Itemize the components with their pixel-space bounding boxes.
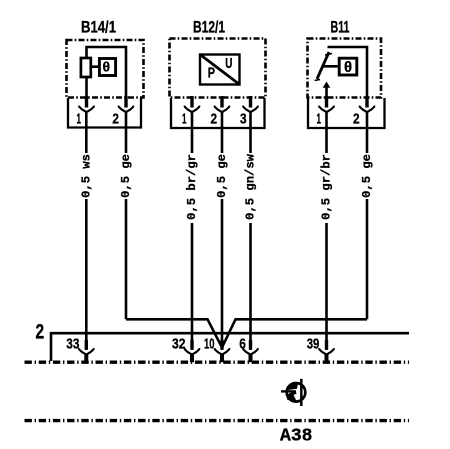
wire internal top loop B11 [328, 47, 368, 96]
tick bottom of diagonal [315, 80, 321, 81]
ge rail right segment [222, 319, 367, 347]
circled connector symbol inside A38 [281, 379, 305, 406]
male pin into socket 32 [190, 340, 193, 350]
label 0,5 ge (B11-2) [360, 153, 374, 199]
connector strip edge [51, 333, 409, 361]
ge rail left segment [126, 319, 222, 347]
svg-text:U: U [225, 55, 232, 72]
svg-text:θ: θ [103, 58, 111, 74]
svg-text:P: P [208, 65, 215, 82]
svg-text:B14/1: B14/1 [81, 19, 116, 37]
connector housing B14/1 [68, 98, 141, 128]
dashed box B14/1 [67, 40, 144, 98]
label 0,5 br/gr [185, 153, 199, 223]
svg-text:0,5 ws: 0,5 ws [79, 154, 93, 198]
svg-text:0,5 ge: 0,5 ge [119, 154, 133, 198]
A38 boundary dash-dot bottom [25, 419, 410, 422]
wire B12/1-3 to socket 6 (gn/sw) [249, 112, 252, 350]
wire B12/1-1 to socket 32 (br/gr) [191, 112, 194, 350]
variable element diagonal B11 [317, 52, 329, 79]
svg-text:A38: A38 [280, 427, 313, 447]
transducer box B12/1 [200, 55, 240, 85]
label 0,5 ge (B14/1-2) [119, 153, 133, 199]
svg-text:1: 1 [77, 111, 82, 128]
wire B12/1-2 to socket 10 (ge) [221, 112, 224, 350]
male pin B12/1-1 [190, 96, 193, 108]
svg-text:θ: θ [344, 59, 352, 76]
male pin B11-1 [325, 96, 328, 108]
socket fork B14/1-1 [79, 106, 94, 112]
socket fork B14/1-2 [119, 106, 134, 112]
male pin B12/1-3 [249, 96, 252, 108]
tick top of diagonal [325, 54, 332, 56]
svg-text:0,5 ge: 0,5 ge [360, 154, 374, 198]
wire B14/1-2 down to rail (ge) [125, 112, 128, 319]
socket 39 [307, 336, 334, 363]
dashed box B11 [308, 39, 382, 98]
wire resistor to pin 1 [85, 76, 88, 96]
svg-text:2: 2 [353, 111, 360, 128]
svg-text:1: 1 [317, 111, 322, 128]
wire B11-2 down to rail (ge) [366, 112, 369, 319]
socket 6 [239, 336, 258, 363]
male pin B14/1-2 [124, 96, 127, 108]
resistor element of temperature sensor B14/1 [81, 58, 91, 77]
svg-text:0,5 gr/br: 0,5 gr/br [320, 154, 334, 220]
theta box B14/1 [99, 59, 115, 76]
svg-text:2: 2 [211, 111, 218, 128]
male pin B14/1-1 [85, 96, 88, 108]
svg-text:39: 39 [307, 336, 320, 353]
socket 32 [172, 336, 199, 363]
male pin into socket 33 [85, 340, 88, 350]
dashed box B12/1 [170, 39, 266, 98]
male pin into socket 39 [325, 340, 328, 350]
svg-text:2: 2 [112, 111, 119, 128]
svg-text:3: 3 [240, 111, 247, 128]
socket fork B11-2 [360, 106, 375, 112]
link diagonal to theta box B11 [322, 65, 339, 68]
socket fork B11-1 [319, 106, 334, 112]
label 0,5 ge (B12/1-2) [215, 153, 229, 199]
wire internal top loop B14/1 [87, 47, 127, 96]
influence arrow B11 pin1 [325, 86, 328, 96]
connector housing B12/1 [171, 98, 265, 128]
svg-text:2: 2 [35, 321, 45, 346]
svg-text:B11: B11 [331, 19, 350, 37]
socket fork B12/1-2 [215, 106, 230, 112]
socket fork B12/1-1 [185, 106, 200, 112]
transducer diagonal [200, 55, 240, 85]
theta box B11 [339, 58, 357, 75]
svg-text:0,5 ge: 0,5 ge [215, 154, 229, 198]
wire B11-1 to socket 39 (gr/br) [325, 112, 328, 350]
svg-text:33: 33 [66, 336, 79, 353]
svg-text:1: 1 [182, 111, 187, 128]
svg-text:B12/1: B12/1 [193, 19, 225, 37]
male pin into socket 6 [249, 340, 252, 350]
male pin into socket 10 [220, 340, 223, 350]
link to theta box [92, 65, 100, 68]
A38 boundary dash-dot top [25, 361, 410, 364]
wire B14/1-1 to socket 33 (ws) [85, 112, 88, 350]
socket fork B12/1-3 [243, 106, 258, 112]
svg-text:0,5 br/gr: 0,5 br/gr [185, 154, 199, 220]
male pin B11-2 [365, 96, 368, 108]
male pin B12/1-2 [220, 96, 223, 108]
label 0,5 ws [79, 153, 93, 199]
connector housing B11 [308, 98, 385, 128]
socket 10 [204, 336, 229, 363]
svg-text:32: 32 [172, 336, 186, 353]
label 0,5 gr/br [320, 153, 334, 223]
label 0,5 gn/sw [244, 153, 258, 223]
socket 33 [66, 336, 93, 363]
svg-text:0,5 gn/sw: 0,5 gn/sw [244, 153, 258, 220]
svg-text:10: 10 [204, 336, 215, 353]
